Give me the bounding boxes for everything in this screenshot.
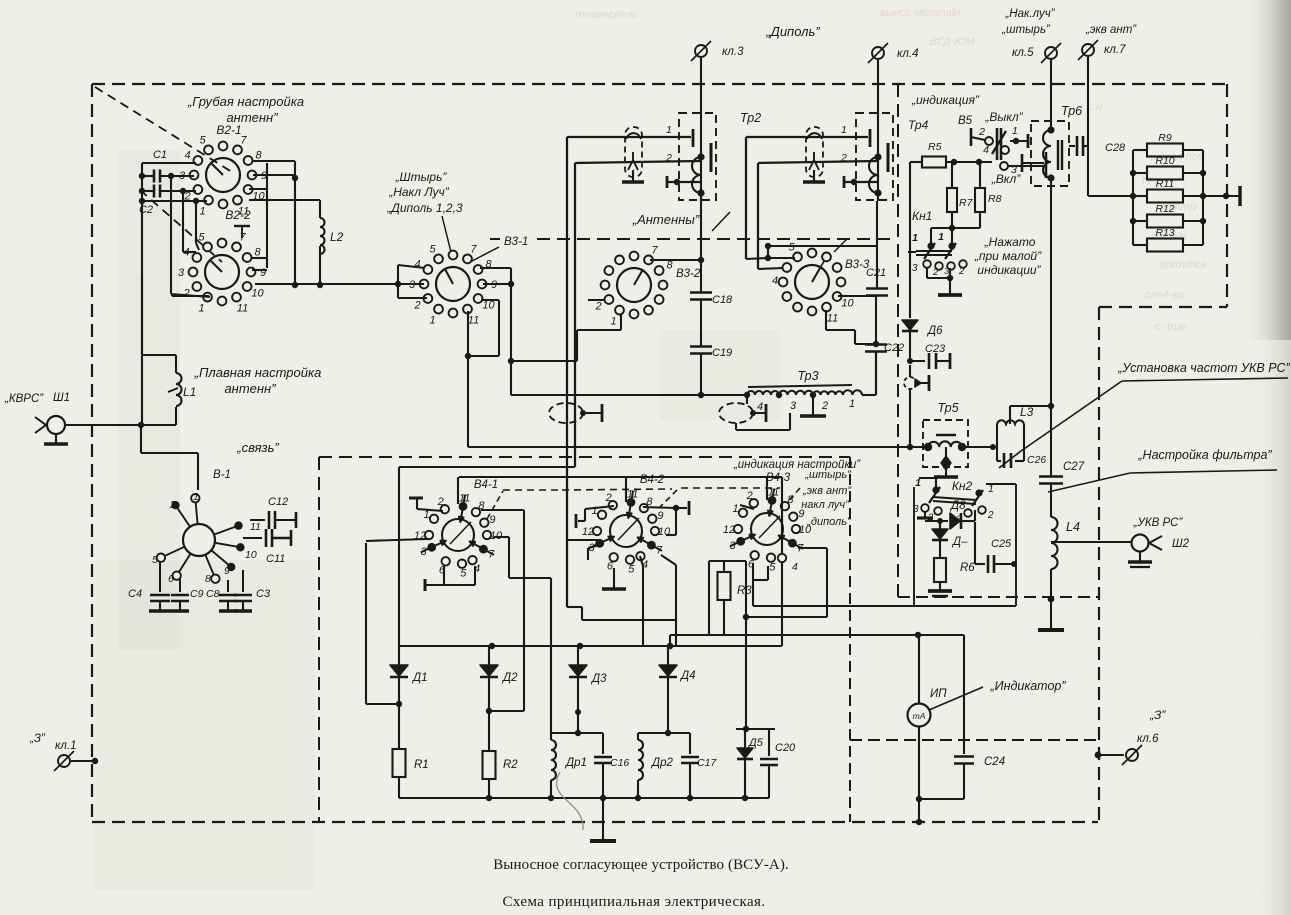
coax shield symbol Tr3 (719, 403, 753, 423)
wire B4-2 pin11 up (625, 477, 627, 502)
svg-text:ИП: ИП (930, 688, 947, 700)
svg-text:6: 6 (168, 573, 174, 585)
svg-text:Тр2: Тр2 (740, 111, 761, 125)
rotary switch B3-2 (617, 268, 651, 302)
terminal кл.5 (1045, 47, 1057, 59)
svg-text:8: 8 (205, 573, 211, 585)
svg-text:Ш2: Ш2 (1172, 538, 1190, 550)
svg-text:R12: R12 (1155, 203, 1174, 215)
svg-text:„Нажато: „Нажато (984, 235, 1036, 249)
svg-text:Тр3: Тр3 (797, 369, 818, 383)
wire bus y477 (459, 476, 782, 478)
svg-text:1: 1 (849, 398, 855, 410)
svg-text:„Накл Луч”: „Накл Луч” (388, 185, 450, 199)
wire Д3 node (575, 709, 581, 715)
terminal кл.1 (58, 755, 70, 767)
svg-text:С20: С20 (775, 742, 796, 754)
svg-text:гprovince: гprovince (1160, 259, 1207, 271)
switch B5 (970, 128, 973, 146)
wire bus y467 (399, 466, 575, 468)
svg-text:кл.4: кл.4 (897, 48, 919, 60)
svg-text:„Установка частот УКВ РС”: „Установка частот УКВ РС” (1117, 361, 1290, 375)
svg-text:R3: R3 (737, 585, 752, 597)
svg-text:1: 1 (199, 206, 205, 218)
svg-text:Тр6: Тр6 (1061, 104, 1082, 118)
terminal кл.6 (1095, 752, 1102, 759)
svg-text:R10: R10 (1155, 155, 1174, 167)
resistor R6 (934, 558, 946, 582)
wire кл.5 down (1050, 60, 1052, 128)
svg-text:Д3: Д3 (590, 673, 607, 685)
ground on line x1051 (1050, 599, 1052, 630)
wire кл.7 to R11 row (1087, 143, 1089, 196)
wire B3-3 pin11 loop (825, 310, 827, 330)
connector Ш1 (47, 416, 65, 434)
svg-text:9: 9 (224, 565, 230, 577)
svg-text:1: 1 (666, 124, 672, 136)
wire C bus left (141, 163, 143, 424)
wire Tr2 left block feeds (567, 136, 691, 138)
capacitor C8 (227, 580, 229, 592)
wire Tr2 right block feeds (746, 136, 868, 138)
svg-text:4: 4 (983, 144, 989, 156)
svg-text:„Антенны”: „Антенны” (632, 212, 700, 227)
svg-text:2: 2 (746, 490, 753, 502)
svg-text:R1: R1 (414, 759, 429, 771)
svg-text:С11: С11 (266, 553, 285, 565)
capacitor C9 (179, 578, 181, 592)
svg-text:8: 8 (666, 260, 673, 272)
svg-text:тА: тА (913, 711, 926, 721)
svg-text:5: 5 (628, 564, 635, 576)
ground bottom centre (602, 798, 604, 841)
diode Д4 (667, 646, 669, 666)
wire B4-2 pin3 down (588, 545, 600, 548)
svg-text:Д–: Д– (951, 536, 968, 548)
svg-text:2: 2 (605, 492, 612, 504)
wire B3-2 pin7 to C18 bus (650, 259, 701, 261)
svg-text:С12: С12 (268, 496, 288, 508)
svg-text:Др1: Др1 (564, 757, 587, 769)
svg-text:10: 10 (251, 288, 264, 300)
svg-text:Др2: Др2 (650, 757, 673, 769)
wire Tr5 to L3 (962, 446, 993, 448)
wire B4-1 pin10 to Др1 feed (493, 536, 509, 538)
svg-text:С24: С24 (984, 756, 1005, 768)
wire B4-3 pin7 loop (798, 547, 827, 549)
wire ladder to ground (1203, 195, 1240, 197)
svg-text:10: 10 (841, 298, 854, 310)
wire L1 junction down to B-1 (140, 425, 142, 453)
diode Д8 (925, 520, 948, 522)
wire R5 (910, 161, 921, 163)
wire B4-2 pin12 from x568 (568, 539, 600, 541)
svg-text:4: 4 (757, 401, 763, 413)
button Kn1 (927, 242, 934, 249)
wire B3-2 pin2 stub (588, 299, 605, 301)
wire B4-3 pin6 pin5 bus (752, 563, 754, 580)
wire B2-1 to B2-2 verticals (170, 176, 172, 294)
svg-text:Д6: Д6 (926, 325, 943, 337)
svg-text:„Вкл”: „Вкл” (991, 172, 1021, 186)
svg-text:С18: С18 (712, 294, 733, 306)
capacitor C26 arrow (999, 451, 1021, 468)
svg-text:5: 5 (429, 244, 436, 256)
svg-text:5: 5 (152, 554, 158, 566)
svg-text:„КВРС”: „КВРС” (4, 393, 44, 405)
ground top right of indicator (1050, 599, 1052, 625)
svg-text:1: 1 (193, 491, 199, 503)
svg-text:С27: С27 (1063, 461, 1085, 473)
dashed box bottom section (индикация настройки) (319, 456, 850, 458)
choke Др2 (638, 732, 690, 734)
svg-text:„З”: „З” (1149, 708, 1166, 722)
svg-text:1: 1 (732, 503, 738, 515)
wire кл.7 down (1087, 57, 1089, 143)
svg-text:„Индикатор”: „Индикатор” (989, 679, 1066, 693)
wire B4-1 bottom bus (424, 579, 427, 591)
svg-text:1: 1 (938, 231, 944, 243)
wire B2-2 right pins (251, 257, 267, 259)
svg-text:4: 4 (184, 150, 190, 162)
svg-text:4: 4 (772, 275, 778, 287)
svg-text:L4: L4 (1066, 520, 1080, 534)
svg-text:11: 11 (237, 303, 248, 315)
svg-text:11: 11 (827, 313, 838, 325)
svg-text:11: 11 (250, 521, 261, 533)
resistor R8 (979, 162, 981, 189)
svg-text:R11: R11 (1156, 178, 1174, 190)
callout line to B3-1 (442, 216, 453, 260)
svg-text:индикации”: индикации” (977, 263, 1041, 277)
connector Ш2 (1132, 535, 1149, 552)
diode Д6 (902, 320, 918, 330)
inductor L3 tank (996, 424, 998, 461)
svg-text:Тр4: Тр4 (908, 118, 929, 132)
svg-text:В3-1: В3-1 (504, 236, 528, 248)
diode Д2 (488, 646, 490, 666)
terminal кл.3 (695, 45, 707, 57)
svg-text:„при малой”: „при малой” (974, 249, 1042, 263)
svg-text:Д8: Д8 (949, 500, 966, 512)
svg-text:„Настройка фильтра”: „Настройка фильтра” (1137, 448, 1272, 462)
button Kn2 (932, 486, 939, 493)
wire diode top bus (399, 645, 782, 647)
diode Д1 (398, 646, 400, 666)
wire B4-2 pin5 ground (613, 568, 615, 585)
svg-text:Д2: Д2 (501, 672, 518, 684)
inductor L4 (1050, 484, 1052, 517)
capacitor C24 (963, 635, 965, 754)
svg-text:Ш1: Ш1 (53, 392, 70, 404)
svg-text:2: 2 (958, 266, 965, 277)
svg-text:„диполь”: „диполь” (806, 516, 852, 528)
transformer Tr2 block right (Tr1) (856, 113, 893, 200)
solid enclosure Kn2 group (913, 487, 915, 606)
svg-text:С21: С21 (866, 267, 886, 279)
wire Tr6 down (1050, 178, 1052, 406)
ground R6 (928, 589, 952, 593)
svg-text:кл.6: кл.6 (1137, 733, 1159, 745)
wire Kn2 pin3 ground (924, 512, 926, 517)
outer dashed enclosure border (92, 83, 1227, 85)
svg-text:5: 5 (769, 562, 776, 574)
svg-text:2: 2 (821, 400, 828, 412)
svg-text:1: 1 (198, 303, 204, 315)
terminal кл.4 (872, 47, 884, 59)
rotary switch B2-1 (206, 158, 240, 192)
wire Ш1 to L1 (66, 424, 176, 426)
svg-text:Д5: Д5 (747, 737, 764, 749)
capacitor C21 (866, 287, 888, 290)
wire indicator bottom (919, 798, 964, 800)
wire кл.3 down (700, 58, 702, 201)
svg-text:С26: С26 (1027, 454, 1046, 466)
wire indicator feed (669, 635, 671, 646)
wire Tr5 tap to Kn2 (919, 477, 936, 479)
capacitor C11 (243, 537, 262, 539)
wire Tr2 left secondary down (700, 194, 702, 201)
svg-text:9: 9 (798, 508, 804, 520)
resistor R10 (1133, 172, 1147, 174)
wire bus y395 (511, 394, 747, 396)
capacitor C12 (250, 519, 265, 521)
svg-text:кл.7: кл.7 (1104, 44, 1126, 56)
diode Д7 (939, 521, 941, 529)
resistor R13 (1133, 244, 1147, 246)
wire Tr3 right end up to C22 (862, 394, 876, 396)
svg-text:„Нак.луч”: „Нак.луч” (1004, 8, 1055, 20)
svg-text:R5: R5 (928, 141, 942, 153)
wire bottom bus (399, 797, 769, 799)
wire кл.1 (71, 760, 95, 762)
wire Д2 node stub (486, 708, 492, 714)
svg-text:В-1: В-1 (213, 469, 231, 481)
rotary switch B4-1 (442, 519, 474, 551)
dashed divider индикация section (897, 84, 899, 597)
svg-text:12: 12 (582, 526, 594, 538)
svg-text:R6: R6 (960, 562, 975, 574)
wire left drop to Д1 node (366, 539, 427, 541)
wire B4-3 pin4 vertical (781, 477, 783, 646)
wire B3-1 pin8 pin9 (480, 267, 511, 269)
svg-text:3: 3 (790, 400, 797, 412)
svg-text:6: 6 (607, 560, 614, 572)
svg-text:„Диполь 1,2,3: „Диполь 1,2,3 (386, 201, 463, 215)
svg-text:„З”: „З” (29, 733, 46, 745)
svg-text:2: 2 (182, 288, 189, 300)
resistor R7 (951, 162, 953, 189)
svg-text:Выносное согласующее устройств: Выносное согласующее устройство (ВСУ-А). (493, 857, 789, 873)
svg-text:7: 7 (651, 245, 658, 257)
capacitor C2 (153, 185, 156, 198)
svg-text:R8: R8 (988, 193, 1002, 205)
svg-text:2: 2 (169, 499, 176, 511)
svg-text:1: 1 (429, 315, 435, 327)
svg-text:2: 2 (987, 510, 994, 521)
rotary switch B4-3 (751, 513, 783, 545)
wire B3-1 pin10 pin11 loop (481, 299, 499, 301)
svg-text:„штырь”: „штырь” (804, 469, 852, 481)
wire B4-2 pin2 terminal (585, 506, 614, 509)
svg-text:11: 11 (468, 315, 479, 327)
svg-text:В4-2: В4-2 (640, 474, 665, 486)
pin7 stub B2-2 (234, 225, 250, 227)
wire B4-2 pin7 down (661, 555, 676, 565)
svg-text:С4: С4 (128, 588, 142, 600)
svg-text:„связь”: „связь” (236, 440, 279, 455)
transformer Tr3 winding (747, 391, 779, 395)
svg-text:2: 2 (978, 126, 985, 138)
resistor R5 (922, 157, 946, 168)
transformer Tr3 centre tap ground (812, 395, 814, 416)
svg-text:В3-2: В3-2 (676, 268, 701, 280)
svg-text:вынсс мелanalн: вынсс мелanalн (880, 7, 960, 19)
svg-text:8: 8 (254, 247, 261, 259)
wire bus y606 (753, 605, 1016, 607)
coax shield symbol left (549, 403, 583, 423)
wire indicator node dot (915, 632, 921, 638)
svg-text:С16: С16 (610, 757, 629, 769)
svg-text:..н: ..н (1090, 101, 1102, 113)
wire кл.4 down (877, 60, 879, 201)
diode Д3 (577, 646, 579, 666)
svg-text:„УКВ РС”: „УКВ РС” (1133, 517, 1184, 529)
svg-text:L2: L2 (330, 230, 344, 244)
svg-text:антенн”: антенн” (224, 381, 276, 396)
resistor R11 (1133, 195, 1147, 197)
svg-text:c.-true: c.-true (1155, 321, 1186, 333)
svg-text:С25: С25 (991, 538, 1012, 550)
svg-text:Кн2: Кн2 (952, 479, 973, 493)
svg-text:С9: С9 (190, 588, 204, 600)
resistor ladder bus left (1132, 150, 1134, 245)
svg-text:4: 4 (414, 259, 420, 271)
svg-text:„экв ант”: „экв ант” (802, 485, 852, 497)
svg-text:L3: L3 (1020, 405, 1034, 419)
wire jog under B4-2 (567, 606, 582, 608)
svg-text:С8: С8 (206, 588, 220, 600)
capacitor C28 (1069, 145, 1075, 147)
svg-text:8: 8 (787, 494, 794, 506)
wire B3-2 pin1 loop (620, 315, 622, 330)
svg-text:С28: С28 (1105, 142, 1126, 154)
svg-text:2: 2 (437, 496, 444, 508)
svg-text:1: 1 (912, 232, 918, 244)
svg-text:L1: L1 (183, 385, 196, 399)
wire B4-3 pin11 up (766, 477, 768, 500)
svg-text:5: 5 (460, 568, 467, 580)
svg-text:В5: В5 (958, 115, 973, 127)
svg-text:„Диполь”: „Диполь” (765, 24, 820, 39)
svg-text:7: 7 (470, 244, 477, 256)
capacitor C4 (159, 562, 161, 592)
meter circle (918, 635, 920, 704)
svg-text:„Плавная настройка: „Плавная настройка (194, 365, 322, 380)
svg-text:1: 1 (610, 316, 616, 328)
svg-text:Кн1: Кн1 (912, 209, 932, 223)
inductor L2 (320, 218, 325, 254)
dashed line through indicator area (850, 739, 1098, 741)
svg-text:„Штырь”: „Штырь” (395, 170, 448, 184)
wire R7 R8 to Kn1 (931, 227, 980, 229)
svg-text:3: 3 (178, 267, 185, 279)
wire bus y447 (468, 446, 923, 448)
svg-text:7: 7 (240, 135, 247, 147)
wire bus x511 (510, 268, 512, 395)
capacitor C18 (690, 291, 712, 294)
wire C18 C19 vertical (700, 201, 702, 292)
resistor R1 (393, 749, 406, 777)
svg-text:1: 1 (841, 124, 847, 136)
capacitor C22 (865, 343, 887, 346)
svg-text:кл.1: кл.1 (55, 740, 77, 752)
capacitor C25 (975, 563, 985, 565)
svg-text:С3: С3 (256, 588, 271, 600)
resistor R9 (1133, 149, 1147, 151)
svg-text:„Выкл”: „Выкл” (984, 110, 1023, 124)
svg-text:9: 9 (260, 267, 266, 279)
svg-text:10: 10 (245, 549, 257, 561)
capacitor C20 (768, 729, 770, 756)
resistor R3 network (709, 560, 746, 562)
screened feeder capsule left (625, 127, 642, 177)
rotary switch B3-1 (436, 267, 470, 301)
capacitor C23 (909, 332, 911, 361)
svg-text:8: 8 (255, 150, 262, 162)
dashed box Антенны section (490, 238, 500, 240)
screened feeder capsule right (806, 127, 823, 177)
svg-text:2: 2 (413, 300, 420, 312)
svg-text:R7: R7 (959, 197, 974, 209)
wire B4-3 pin2 stub (740, 505, 754, 509)
callout line Настройка (1048, 473, 1130, 492)
transformer Tr5 (923, 420, 968, 467)
svg-text:„Грубая настройка: „Грубая настройка (187, 94, 304, 109)
svg-text:„экв ант”: „экв ант” (1085, 24, 1137, 36)
wire B4-2 pin8 pin10 loop (643, 507, 676, 508)
transformer Tr3 overline (748, 385, 852, 387)
svg-text:R13: R13 (1155, 227, 1174, 239)
svg-text:1: 1 (1012, 125, 1018, 137)
svg-text:10: 10 (658, 526, 671, 538)
wire B4-1 pin2 terminal (417, 509, 443, 511)
svg-text:5: 5 (788, 242, 795, 254)
callout dash B4-3 (784, 488, 800, 506)
svg-text:2: 2 (594, 301, 601, 313)
svg-text:12: 12 (723, 524, 735, 536)
rotary switch B3-3 (795, 265, 829, 299)
svg-text:10: 10 (799, 524, 812, 536)
rotary switch B2-2 (205, 255, 239, 289)
wire L4 to Ш2 (1051, 541, 1131, 543)
wire B4-1 pin8 to Д2 (481, 509, 524, 511)
wire Kn1 to ground (926, 268, 928, 278)
capacitor C1 (153, 170, 156, 183)
svg-text:тнзмеciteль: тнзмеciteль (575, 9, 638, 21)
capacitor C19 (690, 345, 712, 348)
svg-text:10: 10 (482, 300, 495, 312)
rotary switch B-1 (183, 524, 215, 556)
svg-text:В2-1: В2-1 (216, 123, 241, 137)
rotary switch B4-2 (610, 515, 642, 547)
svg-text:2: 2 (932, 267, 939, 278)
svg-text:С17: С17 (697, 757, 717, 769)
svg-text:кл.3: кл.3 (722, 46, 744, 58)
svg-text:Тр5: Тр5 (937, 401, 958, 415)
svg-text:Схема принципиальная электриче: Схема принципиальная электрическая. (503, 894, 766, 910)
svg-text:Д4: Д4 (679, 670, 696, 682)
